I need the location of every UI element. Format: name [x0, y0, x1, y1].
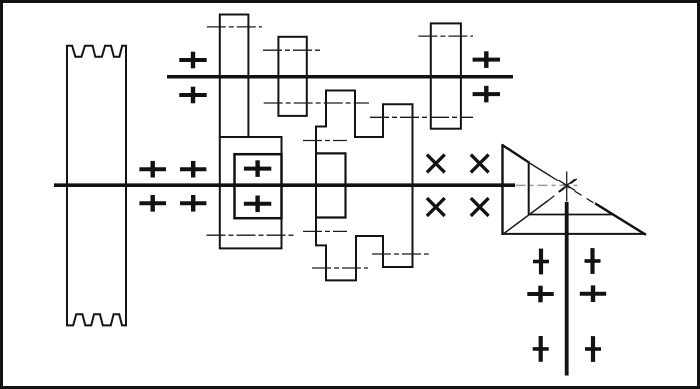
- shaft I (main horizontal shaft): [54, 183, 515, 187]
- axis node cross arm B: [559, 179, 576, 192]
- sliding gear block (staircase cluster) on shaft I: [316, 91, 413, 281]
- bevel gear Z2 bottom edge: [502, 233, 647, 235]
- bevel gear Z1 inner edge: [528, 162, 530, 214]
- fixed-gear mark X3: [427, 198, 445, 216]
- centerline CL8: [372, 253, 429, 255]
- pitch line A solid: [530, 163, 552, 176]
- bevel gear Z2 right slant (thick): [595, 203, 646, 235]
- shaft II (upper shaft): [167, 75, 513, 79]
- pulley P1 (stepped V-belt pulley): [67, 46, 126, 326]
- bearing B1 upper shaft left top: [179, 52, 206, 69]
- gear G2 on shaft II: [278, 37, 306, 116]
- bearing B5 main shaft left1 top: [139, 161, 166, 178]
- gear mark G row2 right (wide plus): [580, 285, 606, 302]
- bearing B7 main shaft left1 bottom: [139, 195, 166, 212]
- clutch inner block: [235, 154, 282, 218]
- centerline CL3: [418, 35, 473, 37]
- clutch housing rect on shaft I: [220, 137, 282, 248]
- bearing B8 main shaft left2 bottom: [180, 195, 206, 212]
- centerline CL1 (mating axis of G1): [207, 26, 262, 28]
- bevel gear Z2 top edge: [529, 214, 612, 216]
- fixed-gear mark X4: [471, 198, 489, 216]
- centerline CL7: [303, 230, 347, 232]
- centerline CL5: [370, 116, 473, 118]
- bevel gear Z1 left edge: [501, 144, 503, 235]
- centerline CL4: [264, 102, 369, 104]
- clutch mark C2 bottom: [244, 196, 271, 213]
- pitch line B solid: [503, 201, 549, 235]
- fixed-gear mark X2: [471, 155, 489, 173]
- bearing B9 vertical shaft row1 left (tall plus): [533, 249, 549, 275]
- shaft III (vertical output shaft): [565, 202, 569, 376]
- bearing B11 vertical shaft row3 left (tall plus): [533, 336, 549, 362]
- pitch line B dashed: [548, 178, 578, 200]
- pitch line A dashes: [551, 176, 596, 204]
- bearing B2 upper shaft left bottom: [179, 87, 206, 104]
- bearing B12 vertical shaft row3 right (tall plus): [585, 336, 601, 362]
- axis node cross arm A: [559, 180, 576, 190]
- bearing B10 vertical shaft row1 right (tall plus): [585, 248, 601, 274]
- centerline CL9 (below clutch): [207, 234, 295, 236]
- centerline CL9b: [312, 267, 368, 269]
- axis node center vertical: [566, 172, 568, 202]
- bearing B4 upper shaft right bottom: [473, 86, 500, 103]
- fixed-gear mark X1: [427, 155, 445, 173]
- axis node gray centerline: [516, 184, 581, 186]
- bearing B3 upper shaft right top: [473, 51, 500, 68]
- gear G1 on shaft II: [220, 15, 249, 138]
- clutch mark C1 top: [244, 160, 271, 177]
- centerline CL2: [263, 49, 321, 51]
- centerline CL6: [303, 140, 347, 142]
- bevel gear Z1 top slant: [502, 145, 530, 163]
- gear G3 on shaft II: [431, 23, 461, 128]
- bearing B6 main shaft left2 top: [180, 161, 206, 178]
- narrow gear rect on shaft I: [316, 153, 346, 217]
- gear mark G row2 left (wide plus): [527, 286, 553, 303]
